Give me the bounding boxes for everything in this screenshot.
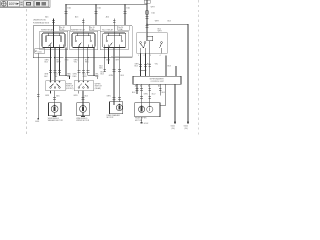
relay K2 load wires	[78, 48, 98, 81]
control unit wires from relay box	[139, 53, 176, 76]
relay K3	[100, 31, 128, 50]
svg-text:GRN: GRN	[107, 95, 112, 97]
ground wire G301	[37, 53, 40, 119]
toolbar divider marks	[20, 3, 22, 5]
svg-text:YEL: YEL	[74, 62, 77, 64]
label: UNDER-HOOD FUSE/RELAY BOX	[33, 19, 50, 24]
svg-text:A4: A4	[158, 85, 160, 88]
washer motor M1	[49, 103, 62, 117]
fuse box bottom edge	[33, 57, 132, 59]
wire: hot feed vertical	[146, 0, 148, 24]
relay K1	[40, 31, 68, 50]
svg-text:WIPER RELAY: WIPER RELAY	[41, 28, 54, 31]
relay K2	[70, 31, 98, 50]
svg-text:GRN: GRN	[144, 94, 149, 96]
tiny wire color labels	[35, 6, 188, 129]
splice jog A	[60, 76, 70, 80]
thin duplicate edge segment	[111, 55, 132, 57]
connector ticks on feed	[146, 17, 149, 19]
svg-text:MOTOR: MOTOR	[135, 120, 142, 122]
page-edge dashed line right	[197, 0, 199, 135]
svg-text:WIPER MOTOR: WIPER MOTOR	[76, 120, 90, 122]
relay K1 load wires	[49, 48, 69, 81]
relay K3 load wires	[103, 48, 132, 102]
rear washer motor M3	[110, 102, 123, 114]
svg-text:GRN: GRN	[106, 59, 111, 61]
fuse value label No.20 15A	[118, 26, 130, 31]
wiper control relay assembly box (dashed)	[137, 30, 168, 54]
control unit bottom pin wires	[136, 84, 175, 121]
node: bottom edge junction dots	[54, 57, 89, 58]
toolbar button icon 2	[24, 1, 33, 7]
page-edge dashed line left	[25, 9, 27, 135]
splice jog	[141, 69, 146, 71]
toolbar button icon 1	[1, 1, 7, 7]
svg-text:A16: A16	[45, 16, 48, 19]
svg-text:GRN: GRN	[45, 95, 50, 97]
svg-text:1: 1	[138, 55, 139, 57]
washer switch S2 (dashed box)	[74, 81, 94, 91]
connector label box at top of feed	[144, 0, 150, 3]
svg-text:(REAR): (REAR)	[95, 87, 102, 90]
wire: S2 to wiper motor M2	[79, 91, 85, 103]
svg-text:GRN: GRN	[82, 76, 87, 78]
node: bus junction dots	[65, 4, 148, 25]
svg-text:GRN: GRN	[109, 75, 114, 77]
splice jog B	[88, 76, 98, 80]
wire: relay K1 coil feed	[53, 18, 55, 35]
svg-text:(30): (30)	[185, 128, 189, 130]
control unit top-right stub	[175, 66, 177, 76]
svg-text:C506: C506	[37, 51, 41, 53]
wire: right ground rail	[187, 24, 189, 121]
svg-text:(15A): (15A)	[60, 28, 65, 31]
wire: relay K3 coil feed	[113, 18, 115, 35]
svg-text:3: 3	[150, 55, 151, 57]
wire: bus drop to fuse 1	[65, 5, 67, 25]
svg-text:100%: 100%	[9, 2, 18, 6]
svg-text:A1: A1	[135, 85, 137, 88]
wire: bus drop to fuse 3	[124, 5, 126, 25]
toolbar button icon 3	[34, 1, 48, 7]
svg-text:(FRONT): (FRONT)	[66, 88, 74, 90]
wire: branch to right rail	[147, 23, 188, 25]
fuse F4	[146, 11, 149, 15]
rear wiper motor M4 unit	[135, 103, 160, 124]
fuse value label No.19 15A	[89, 26, 101, 31]
svg-text:4: 4	[160, 55, 161, 57]
svg-text:(30): (30)	[172, 128, 176, 130]
power bus wire (top horizontal)	[66, 4, 147, 6]
svg-text:A13: A13	[75, 16, 78, 19]
wiper motor M2	[77, 103, 90, 117]
svg-text:FUSE/RELAY BOX: FUSE/RELAY BOX	[33, 21, 50, 24]
svg-text:CONTROL UNIT: CONTROL UNIT	[151, 81, 165, 83]
svg-text:A14: A14	[106, 16, 109, 19]
svg-text:(15A): (15A)	[118, 28, 123, 31]
wire: feed into wiper relay box	[146, 24, 148, 40]
wiper switch S1 (dashed box)	[46, 81, 66, 91]
svg-text:MOTOR: MOTOR	[107, 117, 114, 119]
svg-text:A3: A3	[148, 85, 150, 88]
fuse value label No.18 15A	[59, 26, 71, 31]
svg-text:A2: A2	[140, 85, 142, 88]
toolbar zoom dropdown 100%	[8, 1, 19, 7]
svg-text:WASHER MOTOR: WASHER MOTOR	[48, 119, 64, 122]
svg-text:HI-LO RELAY: HI-LO RELAY	[102, 28, 114, 31]
svg-text:UNDER-HOOD: UNDER-HOOD	[33, 19, 47, 21]
ground G401 symbol	[174, 122, 176, 124]
svg-text:YEL: YEL	[155, 63, 158, 65]
wire: S1 to washer motor M1	[51, 91, 57, 103]
svg-text:WASHER RELAY: WASHER RELAY	[71, 28, 86, 31]
svg-text:GRN: GRN	[73, 95, 78, 97]
connector ticks under junction	[146, 26, 149, 28]
svg-text:(15A): (15A)	[90, 28, 95, 31]
connector label C506	[35, 49, 45, 54]
svg-text:YEL: YEL	[54, 76, 57, 78]
ground wire from control unit	[174, 84, 176, 121]
wire to ground terminal	[141, 117, 143, 122]
svg-text:G301: G301	[35, 121, 39, 123]
ground G402 symbol	[187, 122, 189, 124]
wire: relay K2 coil feed	[82, 18, 84, 35]
wire: bus drop to fuse 2	[95, 5, 97, 25]
svg-text:G502: G502	[144, 123, 148, 125]
under-hood fuse/relay box (dashed)	[33, 26, 132, 58]
svg-text:2: 2	[144, 55, 145, 57]
wiper/washer control unit U1	[133, 76, 181, 84]
toolbar strip	[0, 0, 50, 8]
